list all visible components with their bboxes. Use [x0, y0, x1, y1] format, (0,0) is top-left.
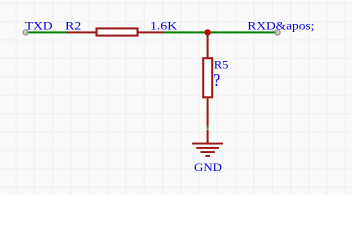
resistor R2 body	[97, 28, 138, 35]
svg-text:1.6K: 1.6K	[150, 18, 177, 32]
ground symbol bar 1	[192, 143, 223, 145]
ground symbol bar 3	[200, 151, 214, 153]
svg-text:GND: GND	[194, 160, 222, 174]
resistor R2 lead left	[67, 31, 96, 33]
resistor R5 body	[203, 58, 212, 97]
junction node	[204, 29, 210, 35]
resistor R5 lead top	[207, 32, 209, 58]
wire R5 to GND	[207, 127, 209, 129]
power port GND pin	[207, 130, 209, 144]
svg-text:?: ?	[213, 70, 220, 90]
wire TXD to R2 (net TXD)	[25, 31, 67, 33]
ground symbol bar 4	[205, 155, 210, 157]
svg-text:RXD&apos;: RXD&apos;	[247, 18, 314, 32]
ground symbol bar 2	[196, 147, 219, 149]
svg-text:R2: R2	[65, 18, 81, 32]
svg-text:TXD: TXD	[25, 18, 53, 32]
resistor R2 lead right	[139, 31, 165, 33]
pin terminal RXD'	[275, 30, 280, 35]
resistor R5 lead bottom	[207, 98, 209, 126]
pin terminal TXD	[23, 30, 28, 35]
wire R2 to RXD pin (net RXD')	[164, 31, 278, 33]
